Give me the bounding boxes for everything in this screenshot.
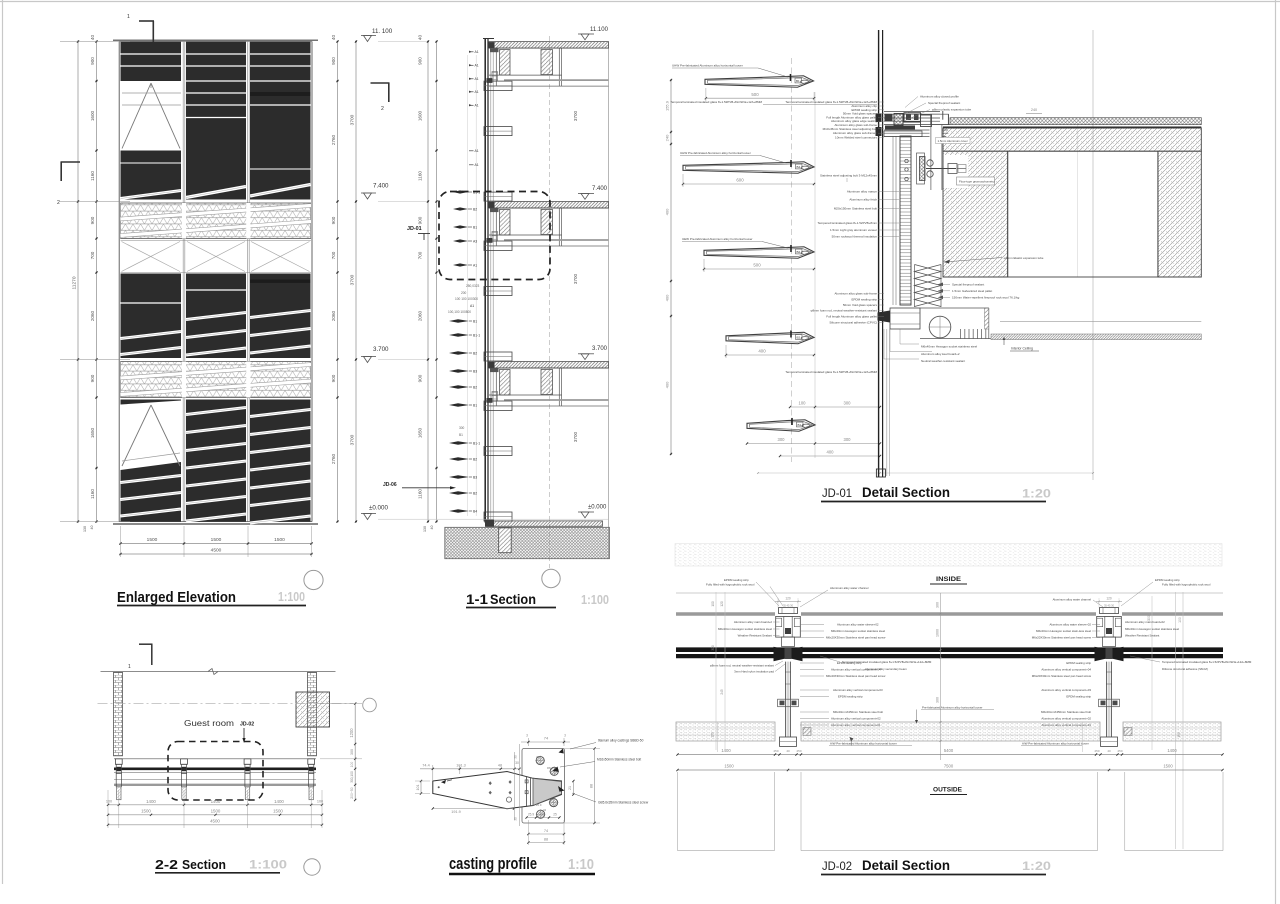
svg-text:250,0323: 250,0323 — [466, 284, 480, 288]
JD-02 mullion bolt cluster — [1099, 699, 1120, 707]
casting profile joint lines — [526, 777, 528, 807]
svg-text:casting profile: casting profile — [449, 855, 537, 873]
2-2 glass thick dark line — [114, 767, 316, 770]
1-1 detail bubble JD-01 dashed — [439, 192, 550, 280]
elevation panel col1 band C lower — [121, 462, 182, 522]
svg-text:B2: B2 — [797, 250, 801, 254]
svg-text:48: 48 — [498, 763, 502, 767]
svg-text:1200: 1200 — [349, 728, 354, 738]
svg-text:3.700: 3.700 — [592, 346, 608, 352]
casting dim 21 — [572, 781, 574, 795]
svg-text:120: 120 — [785, 596, 791, 600]
1-1 transom box upper — [484, 81, 512, 91]
svg-text:1160: 1160 — [418, 489, 423, 499]
svg-text:3700: 3700 — [350, 274, 356, 285]
casting dim top 74 — [527, 738, 529, 746]
svg-text:2760: 2760 — [331, 134, 336, 145]
svg-text:11270: 11270 — [72, 276, 78, 289]
svg-text:Floor-type geomorphometry: Floor-type geomorphometry — [959, 180, 995, 184]
svg-text:74: 74 — [544, 736, 549, 741]
elevation panel col2 band B — [186, 274, 246, 359]
1-1 mullion ladder stub — [492, 72, 498, 82]
JD-02 right dim verticals — [1151, 596, 1153, 750]
svg-text:OUTSIDE: OUTSIDE — [933, 787, 962, 794]
svg-text:1500: 1500 — [1163, 764, 1173, 769]
2-2 section mark 1 — [139, 643, 153, 645]
svg-text:1:100: 1:100 — [249, 858, 287, 872]
svg-text:Aluminum alloy water sleeve+02: Aluminum alloy water sleeve+02 — [1049, 623, 1091, 627]
elevation section mark 1 top — [139, 20, 154, 22]
JD-01 detail section drawing — [665, 30, 1202, 480]
1-1 datum lines at levels — [378, 41, 427, 43]
1-1 curtain wall glass double line — [484, 39, 486, 523]
2-2 right brick pier — [308, 672, 317, 755]
svg-text:JD-06: JD-06 — [383, 482, 397, 488]
svg-text:JD-01: JD-01 — [822, 486, 852, 500]
svg-text:1400: 1400 — [721, 748, 731, 753]
1-1 ground hatch — [445, 527, 610, 558]
svg-text:Weather Resistant Sealant: Weather Resistant Sealant — [738, 634, 773, 638]
JD-01 mullion insulation strip — [900, 136, 911, 305]
svg-text:1.5mm Light gray aluminum vene: 1.5mm Light gray aluminum veneer — [830, 228, 877, 232]
svg-text:2060: 2060 — [418, 310, 423, 321]
svg-text:150: 150 — [711, 732, 715, 738]
svg-text:245: 245 — [720, 689, 724, 695]
svg-text:4500: 4500 — [210, 818, 220, 823]
2-2 window assembly top line — [114, 758, 316, 760]
svg-text:Aluminum alloy secondary beam: Aluminum alloy secondary beam — [865, 667, 907, 671]
svg-text:Aluminum alloy fetch: Aluminum alloy fetch — [849, 198, 877, 202]
svg-text:1:100: 1:100 — [581, 592, 609, 607]
svg-text:A/W Pre-fabricated Aluminum al: A/W Pre-fabricated Aluminum alloy horizo… — [1022, 742, 1089, 746]
1-1 base slab at 0.000 — [487, 521, 603, 526]
svg-text:EPDM sealing strip: EPDM sealing strip — [851, 298, 877, 302]
svg-text:1500: 1500 — [274, 537, 285, 543]
svg-text:30: 30 — [515, 761, 519, 765]
elevation panel col1 band A lower — [121, 151, 182, 200]
JD-01 glass leader top — [763, 104, 877, 106]
svg-text:Aluminum alloy keel board+2: Aluminum alloy keel board+2 — [921, 352, 960, 356]
casting left arrow mark — [441, 780, 446, 784]
svg-text:A1: A1 — [475, 50, 479, 54]
svg-text:240: 240 — [665, 134, 670, 141]
JD-01 cast-in channel in slab — [930, 129, 943, 191]
JD-01 240 dim — [1026, 113, 1042, 115]
1-1 transom box mid — [484, 447, 512, 456]
JD-01 ladder strip bolts — [905, 159, 908, 162]
svg-text:φ8mm plastic expansion tube: φ8mm plastic expansion tube — [932, 108, 971, 112]
svg-text:40: 40 — [90, 526, 94, 530]
svg-text:B4: B4 — [473, 510, 477, 514]
elevation panel col2 band A — [186, 42, 246, 200]
1-1 floor slab hatch — [489, 202, 609, 209]
svg-text:150: 150 — [1177, 732, 1181, 738]
2-2 detail bubble dashed — [168, 742, 263, 801]
svg-text:4500: 4500 — [211, 548, 222, 554]
casting profile vertical plate outline — [522, 749, 565, 824]
svg-text:1500: 1500 — [141, 808, 151, 813]
svg-text:UHW Pre-fabricated Aluminum al: UHW Pre-fabricated Aluminum alloy horizo… — [672, 64, 743, 68]
svg-text:B2: B2 — [473, 352, 477, 356]
elevation panel col1 band C top sliver — [121, 400, 182, 405]
svg-text:900: 900 — [331, 374, 336, 382]
svg-text:900: 900 — [331, 216, 336, 224]
JD-02 dim row1 — [678, 754, 1223, 756]
svg-text:300: 300 — [459, 426, 465, 430]
1-1 slab edge node — [488, 202, 495, 208]
elevation title circle — [304, 570, 323, 589]
elevation right outer dimension line 3700s — [355, 42, 357, 522]
svg-text:Aluminum alloy vertical compon: Aluminum alloy vertical component+04 — [1041, 668, 1091, 672]
elevation X-brace band — [121, 240, 312, 242]
JD-02 mullion top dims — [775, 601, 801, 603]
svg-text:250: 250 — [773, 749, 778, 753]
elevation panel col3 band B — [250, 274, 311, 359]
1-1 interior grid dash line — [548, 36, 550, 568]
svg-text:INSIDE: INSIDE — [936, 576, 961, 583]
svg-text:400: 400 — [665, 208, 670, 215]
1-1 transom box upper — [484, 241, 512, 251]
svg-text:300: 300 — [935, 697, 939, 703]
elevation col1 white panel triangle band A — [122, 83, 151, 149]
elevation band C diagonal stripes col3 — [250, 410, 311, 417]
svg-text:B1: B1 — [796, 79, 800, 83]
2-2 title circle — [304, 859, 320, 875]
svg-text:300: 300 — [844, 437, 852, 442]
JD-02 mullion assembly — [779, 608, 798, 614]
elevation bottom dimension row 1500s — [121, 543, 312, 545]
svg-text:Full length Aluminum alloy gla: Full length Aluminum alloy glass pallet — [826, 315, 877, 319]
JD-02 dim row2 — [678, 769, 1223, 771]
svg-text:Fully filled with hygrophobic: Fully filled with hygrophobic rock wool — [706, 583, 755, 587]
JD-01 left vertical dim chain — [670, 80, 672, 454]
svg-text:3mm Hard nylon insulation pad: 3mm Hard nylon insulation pad — [734, 670, 774, 674]
JD-01 louver dim 400 — [726, 354, 814, 356]
svg-text:1:20: 1:20 — [1022, 487, 1051, 501]
casting profile main blade outline — [433, 772, 562, 809]
svg-text:Fully filled with hygrophobic: Fully filled with hygrophobic rock wool — [1162, 583, 1211, 587]
svg-text:7500: 7500 — [944, 764, 954, 769]
svg-text:34: 34 — [543, 808, 547, 812]
svg-text:A3: A3 — [473, 240, 477, 244]
svg-text:A1: A1 — [475, 64, 479, 68]
svg-text:155.9: 155.9 — [665, 100, 670, 111]
svg-text:B1-1: B1-1 — [473, 334, 480, 338]
elevation panel col1 band B — [121, 274, 182, 359]
elevation left outer dimension line 11270 — [77, 42, 79, 522]
svg-text:M6x20mm Hexagon socket stainle: M6x20mm Hexagon socket stainless steel — [718, 627, 772, 631]
JD-01 louver B4 — [683, 162, 814, 174]
svg-text:M20x150mm Stainless steel bolt: M20x150mm Stainless steel bolt — [834, 207, 877, 211]
1-1 left inner dim chain — [436, 42, 438, 522]
2-2 left brick pier — [114, 672, 123, 755]
svg-text:3: 3 — [564, 734, 566, 738]
svg-text:1600: 1600 — [418, 110, 423, 121]
svg-text:M10x45mm Stainless steel adjus: M10x45mm Stainless steel adjusting bolt — [823, 127, 878, 131]
JD-01 lower glass frame verticals — [886, 329, 888, 476]
JD-02 mullion assembly — [1100, 608, 1119, 614]
casting profile gray wedge — [533, 778, 562, 805]
svg-text:B3: B3 — [473, 476, 477, 480]
svg-text:40: 40 — [90, 35, 95, 41]
svg-text:11. 100: 11. 100 — [372, 28, 393, 35]
svg-text:B1-1: B1-1 — [473, 442, 480, 446]
svg-text:1650: 1650 — [418, 427, 423, 438]
svg-text:1500: 1500 — [211, 808, 221, 813]
svg-text:A1: A1 — [475, 149, 479, 153]
1-1 roof level line — [483, 38, 494, 40]
JD-01 mullion inner lines — [892, 136, 894, 305]
casting dim left row — [425, 771, 519, 773]
1-1 right edge line — [608, 42, 610, 559]
svg-text:1:20: 1:20 — [1022, 859, 1051, 873]
JD-02 interior wall line — [676, 592, 1223, 594]
JD-01 slab opening outline — [1008, 151, 1158, 277]
svg-text:B1: B1 — [473, 404, 477, 408]
JD-01 top bracket assembly — [884, 111, 940, 113]
svg-text:B2: B2 — [797, 336, 801, 340]
svg-text:M6x20mm Hexagon socket stainle: M6x20mm Hexagon socket stainless steel — [1125, 627, 1179, 631]
JD-01 glass double vertical line — [878, 30, 880, 477]
insulation band 1 border lines — [121, 202, 312, 204]
svg-text:200: 200 — [461, 291, 467, 295]
svg-text:EPDM sealing strip: EPDM sealing strip — [1066, 695, 1091, 699]
JD-02 black glass band lower — [676, 654, 1223, 658]
svg-text:B2: B2 — [473, 492, 477, 496]
JD-02 gray board band — [676, 612, 775, 615]
svg-text:40: 40 — [1107, 749, 1111, 753]
1-1 slab edge node — [488, 42, 495, 48]
elevation outer frame verticals — [118, 42, 120, 522]
JD-02 mullion bolt cluster — [778, 699, 799, 707]
svg-text:900: 900 — [90, 374, 95, 382]
JD-02 mullion stem — [1105, 662, 1107, 737]
svg-text:3700: 3700 — [350, 114, 356, 125]
JD-01 louver dim 500 top — [706, 97, 814, 99]
svg-text:Weather Resistant Sealant: Weather Resistant Sealant — [1125, 634, 1160, 638]
svg-text:120: 120 — [1106, 596, 1112, 600]
1-1 louver support rails — [467, 55, 469, 516]
svg-text:2-2: 2-2 — [155, 858, 178, 872]
1-1 anchor arrows B group lower — [449, 319, 469, 322]
JD-01 grid dash line right — [1092, 30, 1094, 480]
JD-01 louver center dash line — [790, 58, 792, 462]
svg-text:1160: 1160 — [90, 489, 95, 499]
svg-text:Silicone structural adhesive (: Silicone structural adhesive (CPVC) — [829, 321, 877, 325]
svg-text:900: 900 — [418, 216, 423, 224]
elevation col1 band C triangle window — [122, 405, 151, 466]
svg-text:1160: 1160 — [418, 171, 423, 181]
1-1 window head assembly — [489, 367, 609, 369]
svg-text:3700: 3700 — [350, 434, 356, 445]
JD-02 detail section drawing — [675, 544, 1252, 875]
elevation panel col1 band A upper — [121, 42, 182, 82]
svg-text:Aluminum alloy main board+02: Aluminum alloy main board+02 — [1125, 620, 1165, 624]
svg-text:100: 100 — [1178, 617, 1182, 623]
svg-text:M6x20X30mm Stainless steel pan: M6x20X30mm Stainless steel pan head scre… — [1032, 674, 1092, 678]
JD-01 louver B1-1 — [747, 420, 815, 432]
svg-text:B1: B1 — [459, 433, 463, 437]
svg-text:900: 900 — [331, 57, 336, 65]
1-1 left outer dim line — [427, 42, 429, 522]
svg-text:Aluminum alloy glass sub-frame: Aluminum alloy glass sub-frame2 — [833, 131, 878, 135]
svg-text:Temporal laminated insulated g: Temporal laminated insulated glass 8+1.5… — [670, 100, 762, 104]
svg-text:EPDM sealing strip: EPDM sealing strip — [1066, 661, 1091, 665]
1-1 transom box mid — [484, 287, 512, 296]
svg-text:40: 40 — [430, 526, 434, 530]
casting vertical witness lines — [514, 752, 516, 820]
1-1 mullion ladder stub — [492, 392, 498, 402]
svg-text:Aluminum alloy vertical compon: Aluminum alloy vertical component+01 — [831, 723, 881, 727]
2-2 glass gray line — [114, 784, 316, 786]
svg-text:1500: 1500 — [147, 537, 158, 543]
svg-text:2060: 2060 — [90, 310, 95, 321]
JD-02 inter-mullion dim vertical — [940, 593, 942, 760]
svg-text:250: 250 — [1094, 749, 1099, 753]
JD-02 mullion bottom cap — [1101, 737, 1118, 746]
JD-01 louver B2 — [704, 247, 814, 259]
svg-text:M6x40mm Hexagon socket stainle: M6x40mm Hexagon socket stainless steel — [921, 345, 977, 349]
2-2 top wall line — [101, 671, 336, 673]
svg-text:25.9: 25.9 — [528, 812, 534, 816]
svg-text:EPDM sealing strip: EPDM sealing strip — [724, 578, 749, 582]
JD-02 louver bracket square — [803, 728, 811, 736]
elevation band C diagonal stripes col2 — [186, 408, 246, 415]
svg-text:M6x20X30mm Stainless steel pan: M6x20X30mm Stainless steel pan head scre… — [1032, 636, 1092, 640]
JD-02 louver bracket square — [1124, 728, 1132, 736]
svg-text:titanium alloy castings SBBD-5: titanium alloy castings SBBD-50 — [598, 739, 644, 743]
elevation mullion lines — [182, 42, 184, 522]
svg-text:M6x20X30mm Stainless steel pan: M6x20X30mm Stainless steel pan head scre… — [826, 636, 886, 640]
svg-text:191.9: 191.9 — [451, 810, 461, 814]
svg-text:B2: B2 — [473, 386, 477, 390]
svg-text:UEW Pre-fabricated Aluminum al: UEW Pre-fabricated Aluminum alloy horizo… — [682, 237, 753, 241]
svg-text:B2: B2 — [473, 458, 477, 462]
1-1 sill box — [484, 192, 512, 201]
svg-text:Guest room: Guest room — [184, 718, 234, 728]
2-2 center dash-dot line — [98, 703, 354, 705]
svg-text:Special fireproof sealant: Special fireproof sealant — [952, 283, 984, 287]
svg-text:A1: A1 — [475, 77, 479, 81]
svg-text:φ8mm Elastic expansion tube: φ8mm Elastic expansion tube — [1004, 256, 1044, 260]
svg-text:3.700: 3.700 — [373, 346, 389, 353]
svg-text:100,100 100800: 100,100 100800 — [448, 310, 471, 314]
svg-text:40: 40 — [418, 35, 423, 41]
svg-text:300,100: 300,100 — [350, 771, 354, 783]
svg-text:74.4: 74.4 — [422, 763, 429, 767]
svg-text:100: 100 — [317, 799, 323, 803]
svg-text:74: 74 — [544, 829, 548, 833]
svg-text:130: 130 — [423, 526, 427, 532]
svg-text:1: 1 — [128, 664, 131, 670]
svg-text:35 45 30: 35 45 30 — [1104, 604, 1115, 608]
svg-text:5400: 5400 — [944, 748, 954, 753]
1-1 window head assembly — [489, 207, 609, 209]
casting bottom dim cluster — [527, 817, 560, 819]
svg-text:25: 25 — [553, 812, 557, 816]
svg-text:A/W Pre-fabricated Aluminum al: A/W Pre-fabricated Aluminum alloy horizo… — [830, 742, 897, 746]
JD-01 sill box and comb grille — [920, 307, 989, 309]
svg-text:Detail Section: Detail Section — [862, 485, 950, 500]
JD-01 concrete slab hatch top band — [943, 128, 1201, 151]
svg-text:10mm Welded steel connectors: 10mm Welded steel connectors — [835, 136, 877, 140]
svg-text:UHW Pre-fabricated Aluminum al: UHW Pre-fabricated Aluminum alloy horizo… — [680, 151, 751, 155]
JD-01 glass bottom cap — [876, 469, 885, 477]
svg-text:1400: 1400 — [274, 799, 284, 804]
svg-text:250: 250 — [796, 749, 801, 753]
JD-01 bottom transom assembly — [890, 308, 920, 329]
svg-text:1.5mm Galvanized steel pallet: 1.5mm Galvanized steel pallet — [952, 289, 992, 293]
svg-text:300: 300 — [778, 437, 786, 442]
svg-text:Tempered laminated insulated g: Tempered laminated insulated glass 8+1.5… — [842, 660, 932, 664]
svg-text:M16x50mm Stainless steel bolt: M16x50mm Stainless steel bolt — [597, 758, 641, 762]
svg-text:200~50: 200~50 — [350, 787, 354, 799]
svg-text:B4: B4 — [797, 165, 801, 169]
svg-text:700: 700 — [90, 251, 95, 259]
svg-text:Aluminum alloy water channel: Aluminum alloy water channel — [830, 586, 869, 590]
1-1 floor slab hatch — [489, 362, 609, 369]
svg-text:B2: B2 — [473, 208, 477, 212]
JD-01 louver B1 — [705, 76, 814, 88]
page scan border top — [0, 1, 1280, 3]
svg-text:7.400: 7.400 — [592, 186, 608, 192]
svg-text:400: 400 — [827, 450, 835, 455]
1-1 anchor labels column A — [469, 51, 474, 53]
2-2 dim row3 — [108, 824, 322, 826]
svg-text:3700: 3700 — [573, 431, 578, 442]
elevation panel col3 band C — [250, 400, 311, 522]
svg-text:Aluminum alloy vertical compon: Aluminum alloy vertical component+02 — [1041, 717, 1091, 721]
1-1 spare circle — [542, 569, 560, 587]
svg-text:1:100: 1:100 — [278, 589, 305, 604]
svg-text:2760: 2760 — [331, 453, 336, 464]
2-2 concrete column block — [296, 692, 330, 727]
svg-text:21: 21 — [568, 786, 572, 790]
2-2 window mullions in plan — [115, 759, 122, 765]
svg-text:B1: B1 — [473, 320, 477, 324]
casting dim right 88 vertical — [594, 749, 596, 824]
svg-text:EPDM sealing strip: EPDM sealing strip — [838, 695, 863, 699]
elevation insulation hatch band at 3.700 — [121, 362, 311, 398]
svg-text:35 45 30: 35 45 30 — [783, 604, 794, 608]
JD-02 mullion black glass blobs — [774, 647, 786, 661]
svg-text:1400: 1400 — [211, 799, 221, 804]
svg-text:Temporal laminated insulated g: Temporal laminated insulated glass 8+1.5… — [785, 370, 877, 374]
1-1 window head assembly — [489, 47, 609, 49]
1-1 datum line at 0.000 — [378, 518, 608, 520]
svg-text:25.9: 25.9 — [536, 803, 542, 807]
1-1 wall face lines — [490, 42, 492, 521]
svg-text:300: 300 — [844, 401, 852, 406]
elevation left inner dimension chain — [96, 42, 98, 522]
svg-text:101: 101 — [416, 785, 420, 791]
JD-01 aluminum cover label — [936, 138, 971, 144]
2-2 glass thin lines — [114, 771, 316, 773]
JD-02 mullion stem — [784, 662, 786, 737]
insulation band 2 diagonal stripes — [121, 365, 312, 379]
svg-text:3700: 3700 — [573, 110, 578, 121]
svg-text:7.400: 7.400 — [373, 183, 389, 190]
svg-text:3700: 3700 — [573, 273, 578, 284]
svg-text:25: 25 — [536, 755, 540, 759]
JD-02 top insulation speckle band — [675, 544, 1222, 567]
JD-01 interior ceiling band — [991, 334, 1201, 340]
JD-01 louver dim 500 third — [704, 268, 814, 270]
svg-text:3: 3 — [526, 734, 528, 738]
svg-text:Aluminum alloy water channel: Aluminum alloy water channel — [1053, 598, 1092, 602]
JD-02 louver band in plan — [676, 722, 775, 741]
svg-text:A1: A1 — [475, 163, 479, 167]
